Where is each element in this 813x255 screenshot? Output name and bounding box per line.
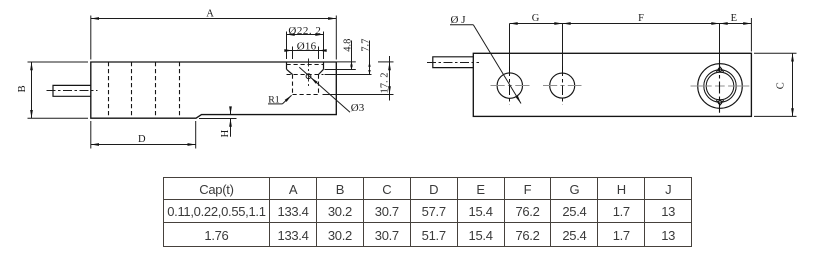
svg-text:D: D <box>138 134 146 145</box>
dimension E <box>720 18 752 52</box>
dimension A <box>91 16 336 60</box>
hole 2 vertical centerline <box>562 67 564 105</box>
dimension C <box>754 53 797 116</box>
small hole circle (O3) <box>306 74 311 79</box>
svg-text:R1: R1 <box>268 95 280 106</box>
dimension table <box>163 177 692 247</box>
svg-text:Ø3: Ø3 <box>351 102 365 114</box>
svg-text:Ø J: Ø J <box>451 14 467 26</box>
dimension 4.8 <box>325 41 356 70</box>
counterbore walls (solid) <box>287 62 324 75</box>
dimension F <box>563 24 720 61</box>
svg-text:C: C <box>775 82 786 89</box>
dimension B <box>28 62 89 118</box>
svg-text:A: A <box>206 8 214 19</box>
dimension D <box>91 121 196 149</box>
svg-text:B: B <box>17 85 28 92</box>
dimension 17.2 <box>323 56 394 101</box>
dimension G <box>510 24 563 67</box>
cable centerline top view <box>427 62 479 64</box>
dimension O22.2 <box>287 32 324 60</box>
bottom locating tab <box>716 100 723 105</box>
svg-text:Ø16: Ø16 <box>297 41 317 53</box>
mounting hole 2 <box>550 73 575 98</box>
dimension H <box>199 107 237 137</box>
leader O3 <box>299 67 350 112</box>
dimension O16 <box>285 47 325 60</box>
cable centerline left view <box>47 90 98 92</box>
load button horizontal centerline <box>691 85 750 87</box>
cable gland top view <box>433 57 474 68</box>
body outline top view <box>473 53 751 116</box>
hole centerline vertical <box>308 59 310 89</box>
svg-text:E: E <box>731 13 737 24</box>
svg-text:7.7: 7.7 <box>361 39 372 52</box>
svg-text:F: F <box>638 13 644 24</box>
hole 1 horizontal centerline <box>491 85 530 87</box>
load button ring <box>704 70 736 102</box>
hole 1 vertical centerline <box>509 67 511 105</box>
dimension 7.7 <box>325 41 372 75</box>
load button vertical centerline <box>719 60 721 113</box>
svg-text:4.8: 4.8 <box>343 39 354 52</box>
top locating tab <box>716 67 723 72</box>
hidden strain-gauge slot lines (dashed) <box>109 62 180 118</box>
leader R1 <box>268 95 292 104</box>
hole 2 horizontal centerline <box>543 85 582 87</box>
svg-text:G: G <box>532 13 540 24</box>
load button outer circle <box>698 64 743 109</box>
mounting hole 1 <box>497 73 522 98</box>
body outline left view <box>91 62 336 118</box>
cable gland left view <box>53 85 91 96</box>
svg-text:Ø22. 2: Ø22. 2 <box>288 25 321 37</box>
leader OJ <box>450 25 521 104</box>
svg-text:17. 2: 17. 2 <box>380 73 391 94</box>
svg-text:H: H <box>220 129 231 137</box>
hidden hole lines (dashed) <box>287 65 324 95</box>
